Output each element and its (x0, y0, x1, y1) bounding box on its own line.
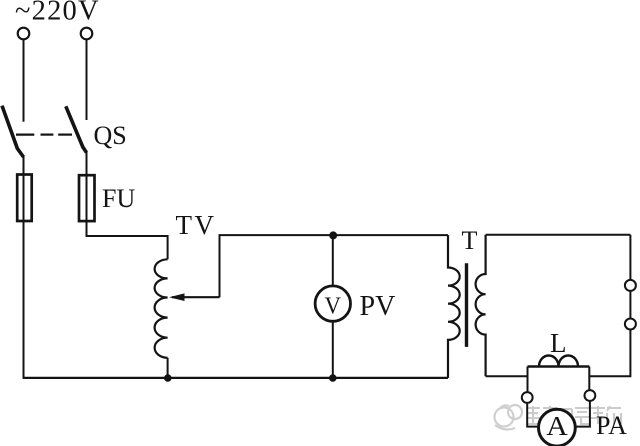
terminal X4 (625, 319, 636, 330)
terminal X1 (18, 28, 30, 40)
svg-text:PV: PV (360, 291, 396, 322)
inductor L (528, 356, 590, 367)
terminal X2 (81, 28, 93, 40)
bottom bus wire (24, 377, 449, 379)
label L (550, 328, 567, 358)
switch QS blade 2 (66, 106, 87, 152)
svg-text:~220V: ~220V (15, 0, 100, 27)
terminal X6 (585, 390, 596, 401)
TV tap arrow (169, 293, 220, 301)
wire TV bottom to bus (167, 358, 169, 378)
secondary top wire (486, 234, 631, 236)
wire FU2 to TV top (87, 220, 168, 259)
right edge wire upper (629, 235, 631, 280)
label QS (94, 121, 127, 150)
svg-text:T: T (462, 226, 478, 255)
fuse FU2 (79, 175, 95, 221)
ammeter PA (539, 409, 576, 446)
label PV (360, 291, 396, 322)
label T (462, 226, 478, 255)
svg-text:V: V (325, 293, 342, 320)
transformer T core (465, 263, 468, 347)
junction node top of PV (329, 231, 337, 239)
terminal X5 (522, 392, 533, 403)
wire between terminals (629, 291, 631, 319)
voltmeter PV (315, 286, 350, 321)
secondary bottom wire left part (486, 375, 528, 377)
label ~220V (15, 0, 100, 27)
label FU (102, 184, 135, 213)
label TV (176, 210, 217, 240)
transformer T secondary winding (476, 235, 486, 376)
wire QS2 to FU2 (86, 151, 88, 178)
autotransformer TV winding (155, 259, 168, 358)
transformer T primary winding (448, 235, 460, 378)
wire FU1 to bottom bus (23, 221, 25, 379)
svg-text:L: L (550, 328, 567, 358)
QS linkage dashed line (16, 134, 72, 136)
wire X2 to QS pole 2 (86, 40, 88, 120)
wire X1 to QS pole 1 (23, 40, 25, 122)
wire QS1 to FU1 (23, 155, 25, 177)
wire L right end down to terminal (588, 367, 590, 391)
svg-text:TV: TV (176, 210, 217, 240)
wire tap riser to top line (220, 235, 449, 297)
svg-text:FU: FU (102, 184, 135, 213)
wire PV to bottom bus (332, 321, 334, 378)
junction node TV bottom (164, 374, 172, 382)
fuse FU1 (17, 174, 32, 221)
right edge wire lower (589, 329, 630, 376)
svg-text:PA: PA (596, 411, 627, 440)
terminal X3 (625, 280, 636, 291)
svg-text:A: A (546, 411, 568, 441)
wire terminal X5 to ammeter (527, 403, 539, 427)
svg-text:QS: QS (94, 121, 127, 150)
watermark logo blob (495, 405, 523, 429)
watermark text 全球电气资源 (526, 406, 621, 424)
label PA (596, 411, 627, 440)
junction node bottom of PV (329, 374, 337, 382)
wire L left end down to terminal (527, 367, 529, 393)
wire top line to PV (332, 235, 334, 287)
wire terminal X6 to ammeter (576, 401, 590, 427)
switch QS blade 1 (2, 106, 24, 157)
